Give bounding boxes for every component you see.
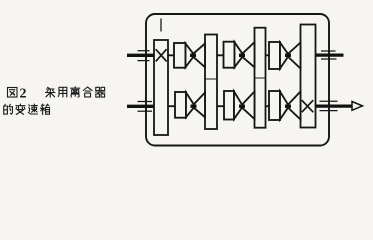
svg-text:2: 2 xyxy=(20,87,27,102)
